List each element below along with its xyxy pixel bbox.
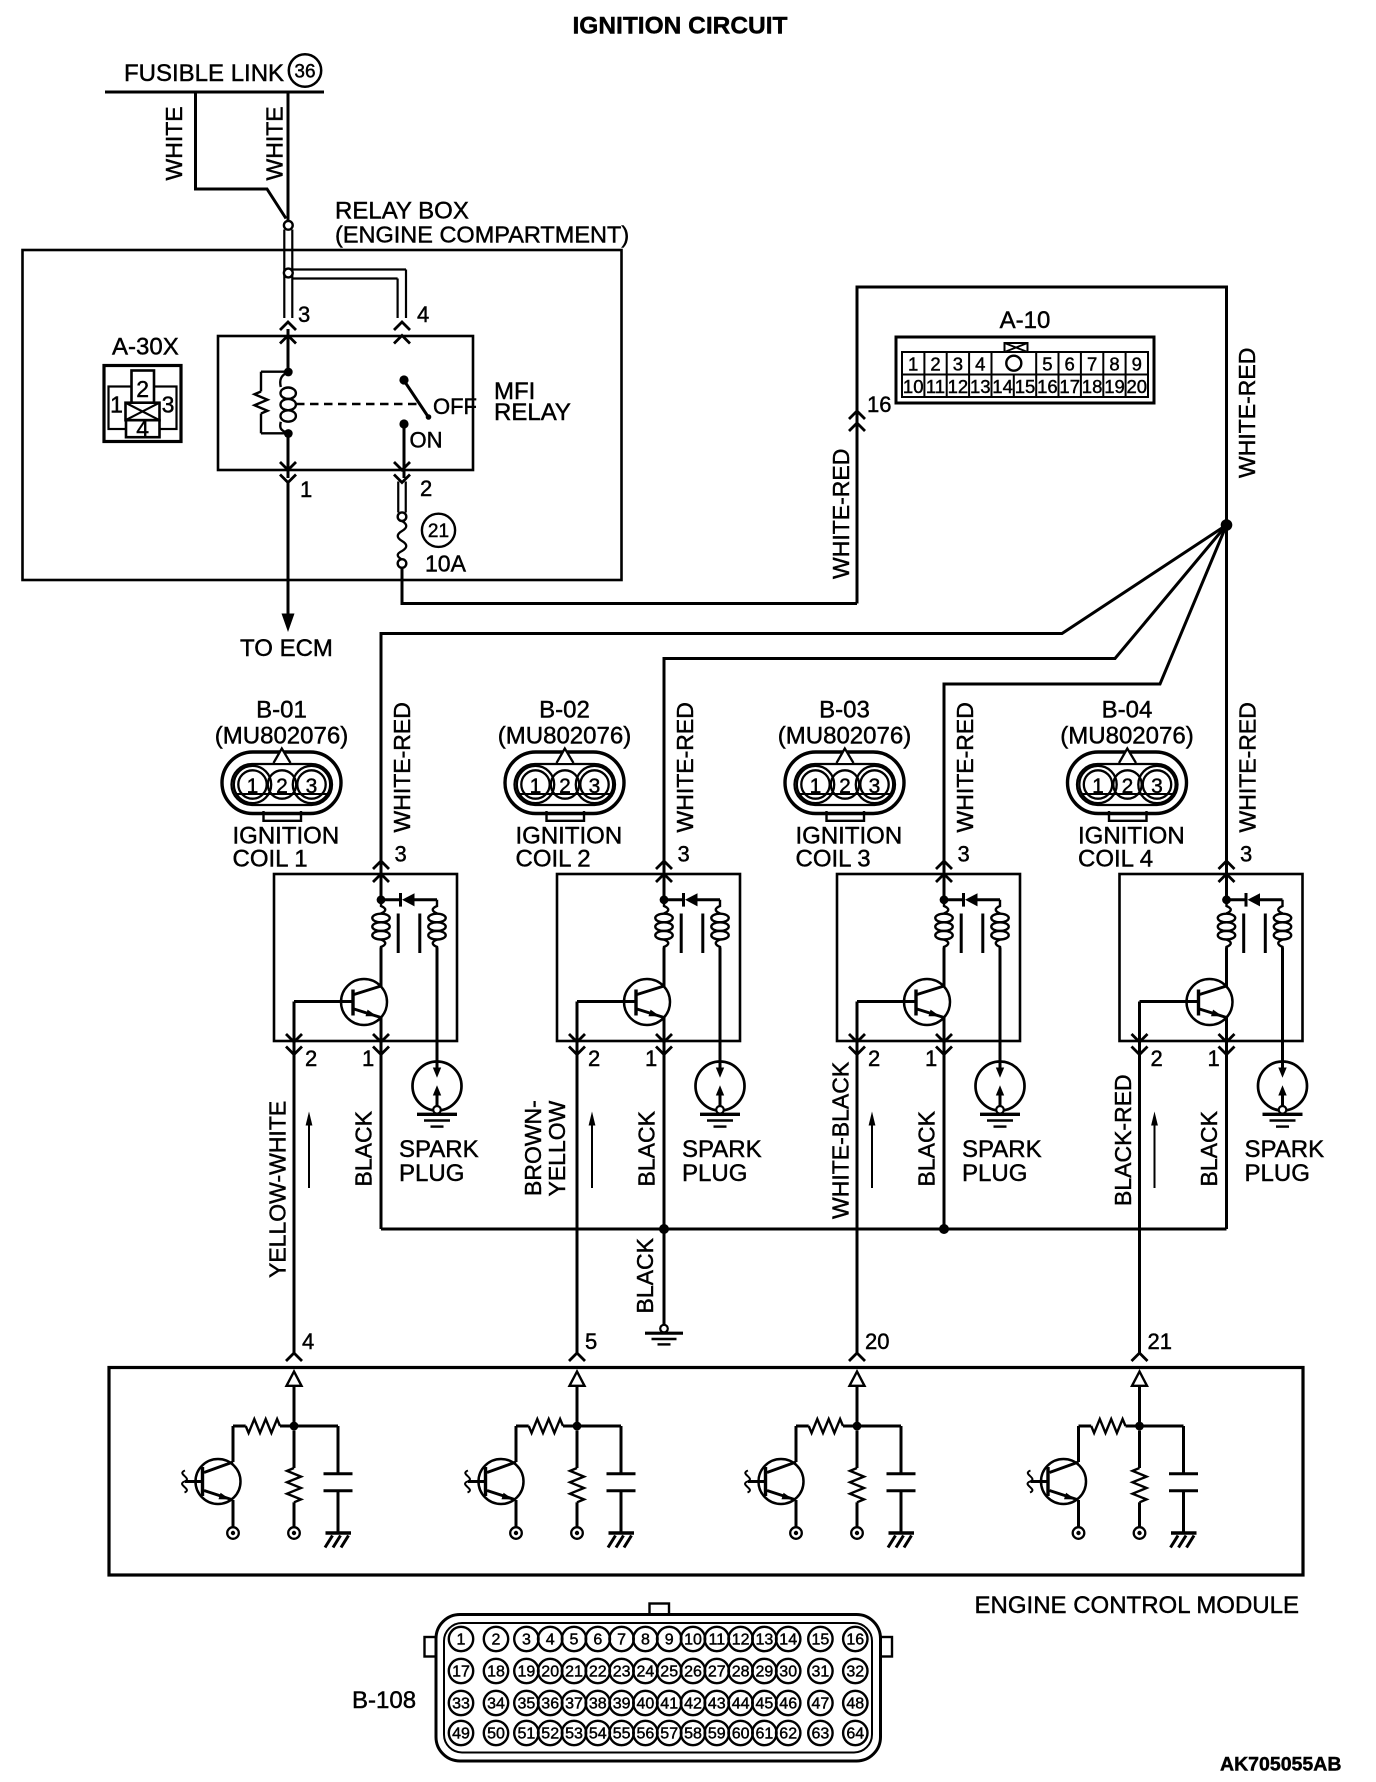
svg-text:11: 11: [926, 376, 945, 397]
svg-text:3: 3: [162, 392, 175, 418]
svg-text:19: 19: [518, 1664, 536, 1681]
feeder wire to coil 1: [381, 525, 1227, 899]
svg-text:48: 48: [846, 1696, 864, 1713]
svg-text:BROWN-: BROWN-: [520, 1100, 546, 1196]
relay pin 1 chevrons: [280, 462, 296, 483]
svg-text:61: 61: [756, 1726, 774, 1743]
svg-text:AK705055AB: AK705055AB: [1220, 1754, 1341, 1776]
svg-text:COIL 3: COIL 3: [796, 846, 871, 873]
svg-text:32: 32: [846, 1664, 864, 1681]
svg-text:20: 20: [541, 1664, 559, 1681]
svg-text:2: 2: [420, 476, 432, 501]
svg-text:1: 1: [457, 1632, 466, 1649]
svg-text:25: 25: [660, 1664, 678, 1681]
svg-text:62: 62: [779, 1726, 797, 1743]
svg-text:1: 1: [110, 392, 123, 418]
MFI RELAY label: [494, 378, 571, 426]
ground terminal: [660, 1325, 668, 1333]
svg-text:37: 37: [565, 1696, 583, 1713]
svg-text:56: 56: [637, 1726, 655, 1743]
svg-text:50: 50: [487, 1726, 505, 1743]
svg-text:WHITE-RED: WHITE-RED: [672, 702, 698, 832]
svg-text:WHITE-RED: WHITE-RED: [952, 702, 978, 832]
B-108 pins 1-16: [449, 1627, 868, 1651]
relay pin 2 chevrons: [394, 462, 410, 483]
ECM driver circuit 2: [465, 1353, 635, 1548]
svg-text:A-10: A-10: [1000, 307, 1051, 334]
svg-text:5: 5: [585, 1329, 597, 1354]
svg-text:54: 54: [589, 1726, 607, 1743]
engine control module box: [109, 1368, 1303, 1576]
svg-text:ON: ON: [410, 428, 443, 453]
svg-text:21: 21: [1148, 1329, 1172, 1354]
svg-text:20: 20: [865, 1329, 889, 1354]
svg-text:29: 29: [756, 1664, 774, 1681]
connector B-04 face: [1060, 723, 1193, 850]
wire label BROWN-YELLOW: [520, 1100, 570, 1196]
svg-text:10: 10: [684, 1632, 702, 1649]
svg-text:43: 43: [708, 1696, 726, 1713]
svg-text:WHITE-RED: WHITE-RED: [389, 702, 415, 832]
svg-text:21: 21: [428, 521, 449, 542]
svg-text:(ENGINE COMPARTMENT): (ENGINE COMPARTMENT): [335, 222, 629, 248]
svg-text:2: 2: [492, 1632, 501, 1649]
svg-text:1: 1: [300, 477, 312, 502]
svg-text:36: 36: [294, 62, 315, 83]
svg-text:26: 26: [684, 1664, 702, 1681]
svg-text:2: 2: [930, 354, 940, 375]
svg-text:20: 20: [1127, 376, 1148, 397]
pin 16 chevrons: [849, 411, 865, 431]
svg-text:59: 59: [708, 1726, 726, 1743]
ground symbol: [645, 1333, 683, 1344]
svg-text:4: 4: [975, 354, 985, 375]
svg-text:58: 58: [684, 1726, 702, 1743]
svg-text:42: 42: [684, 1696, 702, 1713]
svg-text:63: 63: [812, 1726, 830, 1743]
svg-text:28: 28: [732, 1664, 750, 1681]
relay switch: [399, 375, 431, 428]
svg-text:B-02: B-02: [539, 697, 590, 724]
svg-text:WHITE-BLACK: WHITE-BLACK: [828, 1061, 854, 1219]
svg-text:7: 7: [617, 1632, 626, 1649]
ignition coil 4 assembly: [1120, 842, 1325, 1354]
svg-text:9: 9: [1132, 354, 1142, 375]
svg-text:44: 44: [732, 1696, 750, 1713]
svg-text:10A: 10A: [425, 551, 467, 577]
svg-text:6: 6: [593, 1632, 602, 1649]
svg-text:4: 4: [136, 416, 149, 442]
svg-text:49: 49: [452, 1726, 470, 1743]
actuation dashed link: [296, 403, 421, 405]
TO ECM arrowhead: [282, 614, 295, 633]
svg-text:39: 39: [613, 1696, 631, 1713]
svg-text:1: 1: [908, 354, 918, 375]
black ground bus: [381, 1228, 1227, 1231]
relay box outline: [23, 250, 622, 580]
svg-text:FUSIBLE LINK: FUSIBLE LINK: [124, 60, 284, 87]
svg-text:16: 16: [867, 392, 891, 417]
inline connector below pin 2: [398, 482, 407, 522]
svg-text:8: 8: [1109, 354, 1119, 375]
wire switch to pin 2: [403, 424, 406, 478]
connector B-03 face: [778, 723, 911, 850]
svg-text:BLACK: BLACK: [632, 1237, 658, 1313]
svg-text:12: 12: [948, 376, 969, 397]
svg-text:14: 14: [779, 1632, 797, 1649]
svg-text:RELAY: RELAY: [494, 399, 571, 426]
svg-text:B-01: B-01: [256, 697, 307, 724]
svg-text:YELLOW-WHITE: YELLOW-WHITE: [265, 1101, 291, 1278]
svg-text:ENGINE CONTROL MODULE: ENGINE CONTROL MODULE: [975, 1592, 1299, 1619]
ECM driver circuit 1: [182, 1353, 352, 1548]
relay coil shunt resistor: [255, 372, 289, 434]
bus junction coil 3: [939, 1224, 949, 1234]
feeder wire to coil 3: [944, 525, 1227, 899]
A-30X connector symbol: [104, 366, 181, 442]
svg-text:15: 15: [812, 1632, 830, 1649]
svg-text:13: 13: [970, 376, 991, 397]
svg-text:45: 45: [756, 1696, 774, 1713]
svg-text:13: 13: [756, 1632, 774, 1649]
wire pin16 riser: [857, 287, 1227, 900]
svg-text:14: 14: [992, 376, 1013, 397]
svg-text:TO ECM: TO ECM: [240, 635, 333, 662]
ignition coil 2 assembly: [557, 842, 762, 1354]
svg-text:53: 53: [565, 1726, 583, 1743]
inline connector into relay box: [284, 221, 293, 318]
svg-text:18: 18: [487, 1664, 505, 1681]
svg-text:YELLOW: YELLOW: [544, 1100, 570, 1196]
svg-text:17: 17: [452, 1664, 470, 1681]
svg-text:8: 8: [641, 1632, 650, 1649]
svg-text:16: 16: [846, 1632, 864, 1649]
wire pin3 to relay coil: [287, 329, 290, 372]
fusible link bus bar: [105, 91, 324, 94]
svg-text:55: 55: [613, 1726, 631, 1743]
svg-text:41: 41: [660, 1696, 678, 1713]
connector B-01 face: [215, 723, 348, 850]
svg-text:27: 27: [708, 1664, 726, 1681]
B-108 pins 49-64: [449, 1721, 868, 1745]
svg-text:5: 5: [570, 1632, 579, 1649]
svg-text:11: 11: [708, 1632, 725, 1649]
svg-text:17: 17: [1059, 376, 1080, 397]
svg-text:WHITE: WHITE: [262, 106, 288, 180]
wire bus to ground: [663, 1229, 666, 1325]
relay coil winding: [280, 372, 296, 433]
svg-text:21: 21: [565, 1664, 583, 1681]
svg-text:46: 46: [779, 1696, 797, 1713]
connector B-02 face: [498, 723, 631, 850]
svg-text:51: 51: [518, 1726, 536, 1743]
svg-text:47: 47: [812, 1696, 830, 1713]
svg-text:5: 5: [1042, 354, 1052, 375]
svg-text:22: 22: [589, 1664, 607, 1681]
svg-text:38: 38: [589, 1696, 607, 1713]
B-108 pins 17-32: [449, 1659, 868, 1683]
fuse bottom terminal: [398, 559, 407, 568]
A-10 pin numbers row 2: [903, 376, 1147, 397]
ECM driver circuit 4: [1028, 1353, 1198, 1548]
svg-text:COIL 4: COIL 4: [1078, 846, 1153, 873]
svg-text:7: 7: [1087, 354, 1097, 375]
svg-text:WHITE-RED: WHITE-RED: [828, 449, 854, 579]
svg-text:6: 6: [1065, 354, 1075, 375]
bus junction coil 2: [659, 1224, 669, 1234]
B-108 pins 33-48: [449, 1691, 868, 1715]
bus bar branch to relay pin 4: [292, 270, 406, 319]
relay box label: [335, 198, 629, 248]
wire fuse to white-red bus: [402, 568, 857, 604]
svg-text:WHITE-RED: WHITE-RED: [1234, 348, 1260, 478]
wire white branch left: [196, 92, 287, 219]
svg-text:COIL 2: COIL 2: [516, 846, 591, 873]
circled 36 (fusible link number): [289, 54, 321, 86]
svg-text:A-30X: A-30X: [112, 334, 179, 361]
relay pin 4 chevrons: [394, 322, 410, 344]
svg-text:B-04: B-04: [1102, 697, 1153, 724]
svg-text:4: 4: [302, 1329, 314, 1354]
svg-text:3: 3: [298, 302, 310, 327]
circled 21 (fuse number): [422, 514, 455, 547]
svg-text:3: 3: [953, 354, 963, 375]
svg-text:34: 34: [487, 1696, 505, 1713]
svg-text:16: 16: [1037, 376, 1058, 397]
white-red distribution node: [1221, 519, 1233, 531]
svg-text:24: 24: [637, 1664, 655, 1681]
svg-text:18: 18: [1082, 376, 1103, 397]
svg-text:64: 64: [846, 1726, 864, 1743]
wire white branch right: [287, 92, 290, 221]
svg-text:15: 15: [1015, 376, 1036, 397]
ECM driver circuit 3: [745, 1353, 915, 1548]
svg-text:WHITE: WHITE: [161, 106, 187, 180]
ignition coil 1 assembly: [274, 842, 479, 1354]
svg-text:IGNITION CIRCUIT: IGNITION CIRCUIT: [572, 13, 787, 40]
svg-text:2: 2: [136, 376, 149, 402]
svg-text:12: 12: [732, 1632, 750, 1649]
wire pin1 to ECM arrow: [287, 481, 290, 614]
A-10 pin numbers row 1: [908, 354, 1142, 375]
svg-text:4: 4: [417, 302, 429, 327]
svg-text:4: 4: [546, 1632, 555, 1649]
wire coil bottom to pin 1: [287, 434, 290, 479]
ignition coil 3 assembly: [837, 842, 1042, 1354]
svg-text:OFF: OFF: [433, 394, 477, 419]
svg-text:30: 30: [779, 1664, 797, 1681]
node coil bottom: [284, 429, 293, 438]
svg-text:40: 40: [637, 1696, 655, 1713]
svg-text:35: 35: [518, 1696, 536, 1713]
svg-text:RELAY BOX: RELAY BOX: [335, 198, 469, 225]
svg-text:31: 31: [812, 1664, 830, 1681]
svg-text:WHITE-RED: WHITE-RED: [1235, 702, 1261, 832]
svg-text:10: 10: [903, 376, 924, 397]
svg-text:3: 3: [522, 1632, 531, 1649]
svg-text:60: 60: [732, 1726, 750, 1743]
MFI relay box: [218, 336, 473, 470]
svg-text:33: 33: [452, 1696, 470, 1713]
relay pin 3 chevrons: [280, 322, 296, 344]
svg-text:19: 19: [1104, 376, 1125, 397]
svg-text:B-108: B-108: [352, 1687, 416, 1714]
B-108 connector body: [425, 1604, 893, 1762]
svg-text:57: 57: [660, 1726, 678, 1743]
fuse 21 element: [398, 521, 407, 560]
svg-text:23: 23: [613, 1664, 631, 1681]
feeder wire to coil 2: [664, 525, 1227, 899]
svg-text:COIL 1: COIL 1: [233, 846, 308, 873]
A-10 connector body: [896, 337, 1154, 403]
svg-text:BLACK-RED: BLACK-RED: [1110, 1074, 1136, 1206]
svg-text:9: 9: [665, 1632, 674, 1649]
svg-text:B-03: B-03: [819, 697, 870, 724]
node coil top: [284, 368, 293, 377]
svg-text:36: 36: [541, 1696, 559, 1713]
svg-text:52: 52: [541, 1726, 559, 1743]
